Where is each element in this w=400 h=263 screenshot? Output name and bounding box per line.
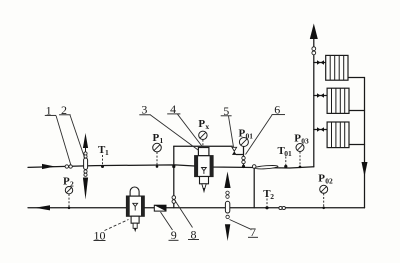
- svg-text:P: P: [63, 175, 70, 187]
- svg-text:P: P: [294, 133, 301, 145]
- svg-text:02: 02: [325, 176, 333, 185]
- svg-text:P: P: [198, 118, 205, 130]
- svg-text:1: 1: [160, 136, 164, 145]
- svg-text:03: 03: [301, 137, 309, 146]
- svg-text:P: P: [318, 172, 325, 184]
- svg-text:01: 01: [284, 149, 292, 158]
- svg-text:1: 1: [46, 103, 52, 117]
- svg-text:3: 3: [141, 103, 147, 117]
- svg-text:4: 4: [170, 102, 176, 116]
- svg-text:2: 2: [61, 103, 67, 117]
- svg-text:10: 10: [94, 228, 106, 242]
- svg-text:1: 1: [105, 148, 109, 157]
- svg-text:2: 2: [270, 192, 274, 201]
- svg-text:01: 01: [246, 131, 254, 140]
- svg-text:P: P: [153, 132, 160, 144]
- svg-text:2: 2: [70, 179, 74, 188]
- svg-text:x: x: [205, 122, 209, 131]
- svg-text:9: 9: [171, 228, 177, 242]
- svg-text:6: 6: [274, 103, 280, 117]
- svg-text:7: 7: [250, 225, 256, 239]
- svg-text:5: 5: [223, 104, 229, 118]
- svg-text:8: 8: [191, 227, 197, 241]
- svg-text:P: P: [239, 127, 246, 139]
